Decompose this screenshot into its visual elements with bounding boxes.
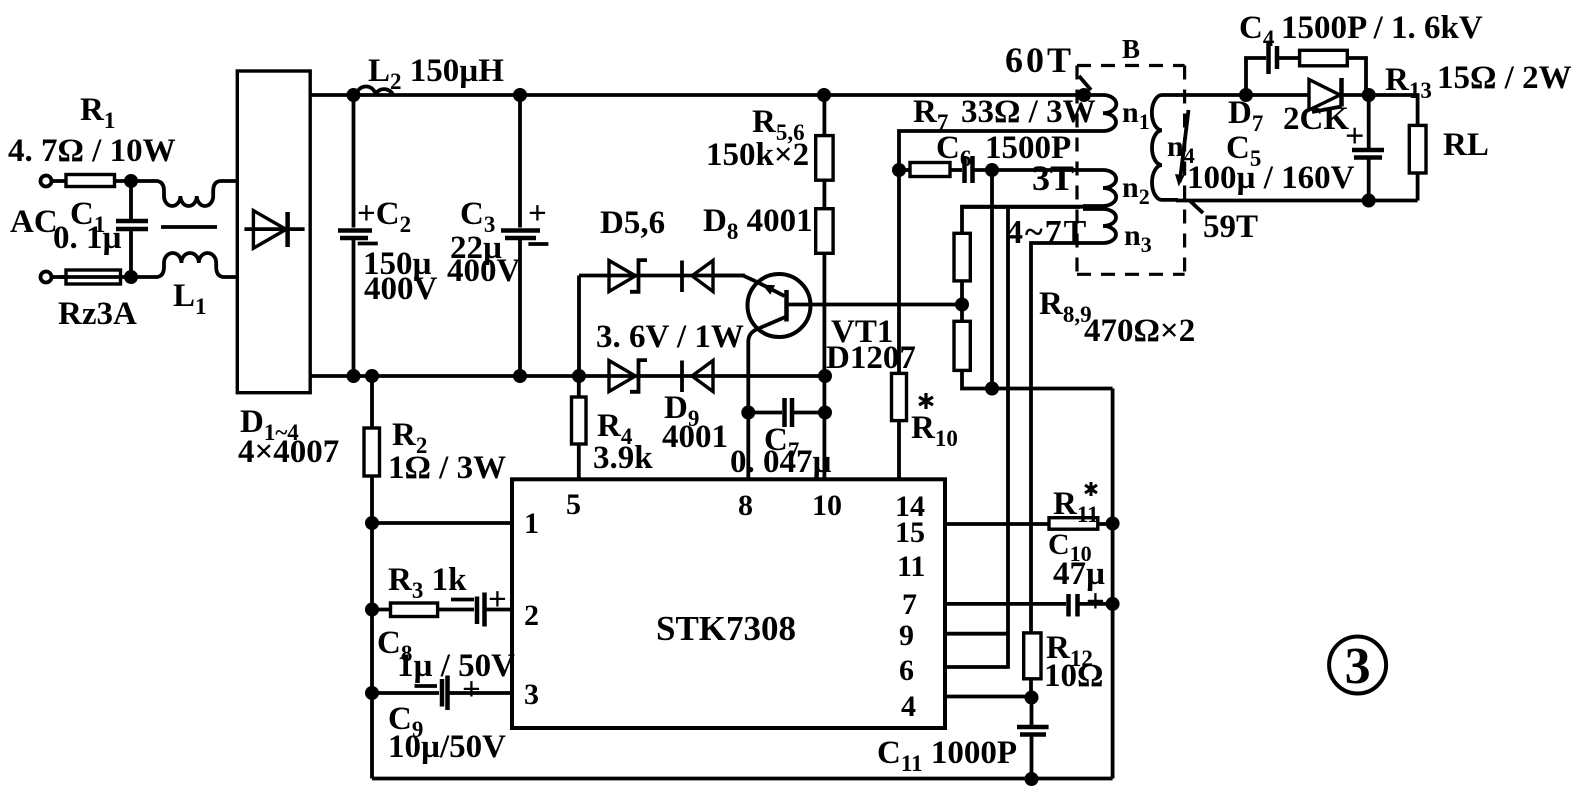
wire pin 4 [945, 695, 1032, 699]
svg-text:+: + [528, 196, 547, 232]
wire to VT1 base [714, 276, 757, 282]
svg-text:1: 1 [524, 507, 539, 540]
svg-text:D1207: D1207 [826, 340, 916, 376]
node dot C6 right [985, 163, 999, 177]
resistor R11 [1049, 518, 1098, 530]
capacitor C1 [129, 181, 133, 219]
svg-text:150k×2: 150k×2 [706, 137, 809, 173]
svg-text:1µ / 50V: 1µ / 50V [397, 648, 515, 684]
node dot diode row / pin10 line [818, 369, 832, 383]
svg-text:4: 4 [901, 690, 916, 723]
svg-text:15Ω / 2W: 15Ω / 2W [1437, 60, 1572, 96]
svg-text:3. 6V / 1W: 3. 6V / 1W [596, 319, 744, 355]
resistor R12 [1024, 633, 1041, 679]
node junction Rz/C1 [124, 270, 138, 284]
node dots bottom rail [347, 369, 361, 383]
output bottom wire [1176, 199, 1418, 203]
svg-text:5: 5 [566, 488, 581, 521]
bridge diode symbol [244, 227, 304, 231]
node dot top rail / n1 [1077, 88, 1091, 102]
resistor R8 [962, 207, 1083, 234]
AC input terminal top [41, 176, 52, 187]
bottom ground rail [372, 777, 1113, 781]
wire [115, 179, 132, 183]
svg-text:400V: 400V [364, 271, 438, 307]
svg-text:3T: 3T [1032, 158, 1074, 198]
snubber C4 [1246, 58, 1266, 95]
node dot R8/R9 mid [955, 298, 969, 312]
wire R9 bottom to right vertical [962, 370, 1113, 388]
n4 arrow [1180, 110, 1189, 182]
svg-text:8: 8 [738, 489, 753, 522]
wire n3 bottom to R12 [1031, 243, 1083, 633]
svg-text:10: 10 [812, 489, 842, 522]
svg-text:9: 9 [899, 619, 914, 652]
svg-text:1Ω / 3W: 1Ω / 3W [388, 450, 506, 486]
node dot top rail / C2 [347, 88, 361, 102]
winding n1 [1083, 95, 1116, 131]
diode D9 [680, 361, 684, 393]
node dot C7 right [818, 406, 832, 420]
svg-text:AC: AC [10, 204, 58, 240]
svg-text:6: 6 [899, 654, 914, 687]
top rail [310, 93, 1084, 97]
node junction R1/C1 [124, 174, 138, 188]
svg-text:L2 150µH: L2 150µH [368, 53, 504, 94]
svg-text:4001: 4001 [662, 419, 728, 455]
node dot top rail / C3 [513, 88, 527, 102]
svg-text:+: + [1345, 118, 1364, 155]
capacitor C9 [365, 686, 379, 700]
wire pin10 vertical [823, 253, 827, 479]
node dot emitter / C7 [741, 406, 755, 420]
59T pointer [1189, 200, 1203, 213]
svg-text:2: 2 [524, 599, 539, 632]
resistor R9 [954, 321, 970, 370]
resistor R7 [899, 168, 910, 172]
svg-text:3: 3 [1345, 638, 1371, 695]
svg-text:0. 047µ: 0. 047µ [730, 444, 832, 480]
svg-text:3: 3 [524, 678, 539, 711]
capacitor C8 [451, 598, 474, 602]
svg-text:1500P / 1. 6kV: 1500P / 1. 6kV [1281, 10, 1483, 46]
capacitor C2 [352, 95, 356, 228]
choke core line [161, 225, 217, 229]
resistor R10 [892, 373, 907, 420]
svg-text:33Ω / 3W: 33Ω / 3W [961, 94, 1096, 130]
svg-text:10Ω: 10Ω [1044, 658, 1103, 694]
capacitor C3 [518, 95, 522, 228]
resistor R4 [577, 376, 581, 397]
svg-text:4~7T: 4~7T [1006, 214, 1088, 251]
zener branch left vertical [577, 276, 581, 377]
star R10 [919, 393, 933, 409]
resistor R2 [370, 376, 374, 428]
IC STK7308 box [512, 479, 945, 728]
svg-text:7: 7 [902, 588, 917, 621]
fuse Rz3A [66, 270, 121, 284]
wire pin 9 [945, 632, 1008, 636]
svg-text:100µ / 160V: 100µ / 160V [1187, 160, 1355, 196]
capacitor C6 [950, 168, 962, 172]
svg-text:470Ω×2: 470Ω×2 [1084, 313, 1195, 349]
star R11 [1085, 482, 1097, 496]
node dot C6 left [892, 163, 906, 177]
node dot pin4/R12 [1025, 691, 1039, 705]
pin1 wire [372, 521, 512, 525]
inductor L2 [357, 87, 393, 95]
AC input terminal bottom [41, 272, 52, 283]
svg-text:C11 1000P: C11 1000P [877, 735, 1017, 776]
winding n4 [1152, 95, 1178, 200]
wire right vertical [1111, 389, 1115, 779]
load RL [1369, 95, 1418, 125]
inductor L1 top winding [131, 181, 240, 206]
wire pin 15 [945, 522, 1049, 526]
svg-text:60T: 60T [1005, 40, 1074, 80]
svg-text:+: + [1086, 584, 1105, 620]
svg-text:D5,6: D5,6 [600, 205, 665, 241]
wire C6 node down [990, 170, 994, 389]
wire tap n2/n3 [962, 205, 1080, 209]
node dot top rail / R5 [817, 88, 831, 102]
VT1 emitter wire [748, 317, 786, 480]
svg-text:B: B [1122, 34, 1140, 64]
wire C6 node to n2 top [992, 168, 1083, 172]
inductor L1 bottom winding [131, 253, 240, 277]
svg-text:D8 4001: D8 4001 [703, 203, 813, 244]
winding n2 [1083, 170, 1116, 206]
svg-text:59T: 59T [1203, 209, 1258, 245]
svg-text:+: + [462, 672, 481, 708]
resistor R5 [823, 95, 827, 136]
svg-text:RL: RL [1443, 127, 1489, 163]
svg-text:Rz3A: Rz3A [58, 296, 137, 332]
capacitor C7 [748, 411, 782, 415]
node dot on R9 bottom line [985, 382, 999, 396]
snubber resistor R13 [1300, 50, 1348, 66]
svg-text:2CK: 2CK [1283, 101, 1349, 137]
bottom rail from bridge [310, 374, 825, 378]
output top wire [1176, 93, 1309, 97]
capacitor C11 [1030, 698, 1034, 726]
bridge rectifier D1-4 box [237, 71, 310, 393]
60T tick [1079, 76, 1091, 90]
zener D5 [609, 261, 636, 292]
svg-text:4. 7Ω / 10W: 4. 7Ω / 10W [8, 133, 176, 169]
VT1 collector wire [787, 303, 963, 307]
figure number circle 3 [1329, 637, 1386, 694]
transformer B dashed box [1077, 64, 1185, 67]
wire [52, 275, 67, 279]
svg-text:STK7308: STK7308 [656, 609, 796, 648]
diode D7 [1309, 80, 1340, 111]
svg-text:+: + [488, 582, 507, 618]
resistor R3 [365, 603, 379, 617]
svg-text:R3 1k: R3 1k [388, 562, 467, 603]
zener D6 [609, 361, 636, 392]
svg-text:15: 15 [895, 516, 925, 549]
svg-text:400V: 400V [447, 253, 521, 289]
node dot C11 bottom [1025, 772, 1039, 786]
capacitor C5 [1367, 95, 1371, 148]
svg-text:3.9k: 3.9k [593, 440, 653, 476]
svg-text:0. 1µ: 0. 1µ [53, 220, 122, 256]
resistor R6 [823, 180, 827, 209]
winding n3 [1083, 209, 1116, 243]
transistor VT1 [748, 274, 811, 337]
resistor R1 [66, 175, 115, 187]
diode D8 [680, 261, 684, 293]
top zener row wire [579, 274, 745, 278]
R10 branch vertical (n1 bottom to pin 14) [899, 131, 1083, 373]
wire pin 7 [945, 602, 1066, 606]
svg-text:4×4007: 4×4007 [238, 434, 339, 470]
svg-text:11: 11 [897, 550, 925, 583]
svg-text:10µ/50V: 10µ/50V [388, 729, 506, 765]
capacitor C10 [1066, 594, 1071, 617]
wire pins 9/6 vertical [945, 207, 1008, 667]
wire [52, 179, 67, 183]
